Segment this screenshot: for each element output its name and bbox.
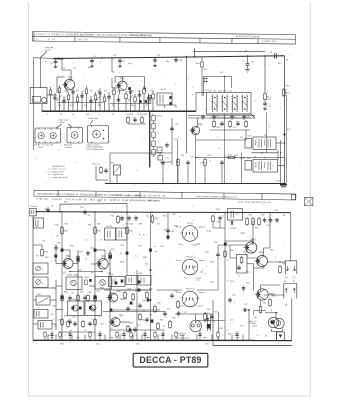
svg-text:C63: C63 [205, 344, 208, 346]
svg-text:Nom.val: Nom.val [92, 164, 99, 166]
underside view box driver [67, 127, 83, 143]
svg-text:TR2: TR2 [68, 76, 73, 79]
svg-text:0.5W: 0.5W [196, 244, 200, 246]
svg-text:Collector: Collector [197, 305, 204, 308]
svg-text:TR1 (x): TR1 (x) [187, 223, 193, 225]
svg-text:R34: R34 [45, 257, 48, 259]
svg-text:1k5: 1k5 [220, 72, 223, 74]
components under T7 [67, 320, 69, 322]
underside view transistor circle 2 [182, 259, 198, 275]
wire TR8 collector top [252, 241, 254, 245]
svg-text:point: point [196, 279, 200, 282]
svg-text:1k: 1k [222, 216, 224, 218]
svg-text:W: W [143, 235, 145, 237]
svg-text:L10 4k5: L10 4k5 [106, 226, 113, 228]
node bus junction 3 [154, 57, 155, 58]
capacitor C43 [276, 218, 278, 220]
component box left3 [38, 321, 52, 330]
svg-text:TR5: TR5 [101, 255, 106, 258]
wire TR4 TR5 emitter link [70, 271, 102, 273]
capacitor C18 on bus [175, 57, 177, 59]
component drop at x104.5 [104, 94, 106, 111]
ground at C14 [154, 64, 156, 66]
svg-text:AGC: AGC [196, 62, 201, 65]
svg-text:R12: R12 [268, 99, 271, 101]
electrolytic blobs lower section [61, 249, 64, 252]
capacitor C36 [135, 216, 137, 218]
electrolytic blobs in T7 [72, 307, 75, 310]
capacitor C1 [55, 59, 57, 61]
aerial note leader wire [40, 52, 47, 58]
svg-text:R58: R58 [157, 303, 160, 305]
capacitor C56 [229, 298, 231, 300]
IF transformer T6 box pair [66, 277, 82, 290]
resistor R37b on x78 [77, 255, 79, 257]
svg-text:C4: C4 [83, 91, 85, 93]
svg-text:R3: R3 [76, 91, 78, 93]
svg-text:TR4: TR4 [66, 255, 71, 258]
wire TR1 emitter down [66, 88, 68, 93]
component drop at x144 [143, 86, 145, 111]
svg-text:R35: R35 [163, 216, 166, 218]
svg-text:Black: Black [60, 122, 65, 124]
wire left rail lower [32, 216, 34, 340]
capacitor C30 input coupling [47, 207, 49, 209]
svg-text:R45a: R45a [210, 262, 214, 264]
capacitor C52 [164, 311, 166, 313]
component drop at x100 [99, 88, 101, 111]
resistor R36 on rail [61, 226, 63, 228]
svg-text:50: 50 [283, 215, 285, 217]
thermistor X1 box [277, 332, 285, 341]
wire TR3 top links [111, 58, 113, 72]
detector cluster components [127, 116, 129, 118]
svg-text:3: 3 [47, 114, 48, 116]
wire TR10 base chain [247, 263, 254, 265]
svg-text:8k2: 8k2 [98, 105, 101, 107]
svg-text:R8: R8 [151, 91, 153, 93]
components small bottom mid [204, 312, 206, 314]
svg-text:R13: R13 [278, 63, 281, 65]
junction dots on chassis bus [50, 110, 52, 112]
top parts-table row divider [32, 36, 295, 39]
wire bottom-left links [62, 331, 95, 333]
svg-text:9 9 SM / 5 W: 9 9 SM / 5 W [262, 41, 277, 43]
svg-text:OC81D: OC81D [230, 228, 237, 230]
pot arrows in row [57, 95, 134, 102]
resistor R42b left of T5 [212, 215, 214, 217]
svg-text:R11: R11 [204, 69, 207, 71]
svg-text:C14: C14 [157, 55, 160, 57]
svg-text:C37: C37 [160, 246, 163, 248]
svg-text:x2: x2 [70, 330, 72, 332]
svg-text:C21: C21 [268, 106, 271, 108]
middle table right end box [291, 194, 296, 199]
capacitor C38b [219, 216, 221, 218]
svg-text:R38: R38 [97, 224, 100, 226]
svg-text:VR2: VR2 [52, 306, 56, 308]
component drop at x82 [81, 91, 83, 111]
transistor TR6 [108, 293, 117, 302]
svg-text:D1: D1 [137, 114, 139, 116]
resistor R19h horizontal [227, 157, 229, 159]
svg-text:R33: R33 [111, 216, 114, 218]
svg-text:T4: T4 [254, 157, 256, 159]
svg-text:x1: x1 [42, 269, 44, 271]
svg-text:R62: R62 [181, 298, 184, 300]
svg-text:R20: R20 [247, 158, 250, 160]
wire TR1 collector up [70, 70, 72, 80]
svg-text:x: x [99, 114, 100, 116]
svg-text:⊔¹¹ c.depicked o W¹: ⊔¹¹ c.depicked o W¹ [48, 170, 65, 173]
svg-text:1: 1 [158, 125, 159, 127]
capacitor C32 on bus [84, 209, 86, 211]
svg-text:R55: R55 [214, 242, 217, 244]
svg-text:W 30 0.34 77 0.4 W 05: W 30 0.34 77 0.4 W 05 [236, 36, 260, 38]
svg-text:R53: R53 [128, 289, 131, 291]
wire gang top feeds [196, 92, 207, 94]
svg-text:0.04: 0.04 [70, 105, 74, 107]
svg-text:C57: C57 [230, 320, 233, 322]
svg-text:C33: C33 [97, 201, 100, 203]
resistor R65 [269, 298, 271, 300]
svg-text:△ ¹¹ n append q⁄c⁄ but⁄ql: △ ¹¹ n append q⁄c⁄ but⁄ql [48, 176, 68, 179]
svg-text:C44: C44 [57, 243, 60, 245]
resistor R44 [246, 217, 248, 219]
svg-text:C37: C37 [172, 214, 175, 216]
volume control VR1 [114, 165, 121, 175]
component drop at x139.5 [139, 90, 141, 111]
svg-text:C24: C24 [233, 127, 236, 129]
resistor R12 [264, 92, 266, 94]
svg-text:TR7: TR7 [119, 314, 124, 317]
output stage bias box [237, 255, 248, 274]
resistor R48 [61, 294, 63, 296]
svg-text:R68: R68 [228, 334, 231, 336]
component box mid2 [126, 276, 137, 285]
coil L2 circle [42, 98, 47, 103]
svg-text:R44x: R44x [174, 226, 178, 228]
node bus dots lower [61, 211, 62, 212]
svg-text:R36a: R36a [70, 246, 74, 248]
svg-text:2nd Hd · corr has LTS: 2nd Hd · corr has LTS [34, 145, 54, 147]
svg-text:R15: R15 [130, 114, 133, 116]
component drop at x91 [90, 96, 92, 111]
svg-text:25: 25 [56, 236, 58, 238]
svg-text:C39: C39 [138, 246, 141, 248]
wire volume to bus [116, 175, 118, 184]
bold chassis end mark [280, 184, 287, 186]
svg-text:+9v(x): +9v(x) [206, 231, 211, 233]
component drop at x64 [63, 96, 65, 111]
wire second bottom rail [212, 341, 214, 346]
component drop at x86.5 [86, 86, 88, 111]
underside view box 2nd IF [35, 128, 61, 143]
capacitor C5 on bus [91, 58, 93, 60]
svg-text:C50: C50 [174, 291, 177, 293]
wire bottom chassis bus [33, 339, 292, 341]
svg-text:R2: R2 [74, 68, 76, 70]
svg-text:TR6: TR6 [116, 290, 121, 293]
wire long verticals lower section [61, 212, 63, 340]
capacitor C34 [121, 216, 123, 218]
svg-text:C48: C48 [142, 301, 145, 303]
svg-text:C40x: C40x [205, 252, 209, 254]
wire output links [252, 152, 279, 154]
wire mid cluster vertical x137 [136, 270, 138, 340]
component chain right of T2 [152, 116, 155, 121]
svg-text:R61: R61 [166, 341, 169, 343]
svg-text:C52x: C52x [100, 324, 104, 326]
wires driver cluster [120, 289, 152, 291]
wire TR5 base feed [91, 263, 96, 265]
resistor bottoms on bus [47, 335, 49, 341]
wire HT bus thick elbow [54, 58, 64, 60]
wire links T6 T7 [56, 285, 62, 287]
svg-text:T6a: T6a [52, 288, 55, 290]
svg-text:R56: R56 [149, 289, 152, 291]
scan speckle noise [33, 48, 300, 343]
svg-text:R37: R37 [80, 252, 83, 254]
transistor TR9 [257, 256, 268, 267]
junction dots cluster [204, 78, 206, 80]
wire second connector feed [264, 294, 284, 296]
resistor R52 [94, 318, 96, 320]
svg-text:C20: C20 [246, 116, 249, 118]
svg-text:R40: R40 [130, 224, 133, 226]
bottom components row above bus [44, 331, 46, 340]
component drop at x114 [113, 87, 115, 111]
svg-text:R4: R4 [90, 91, 92, 93]
input socket J1 [30, 208, 36, 216]
wire speaker loop corner [254, 310, 267, 312]
svg-text:x3: x3 [85, 240, 87, 242]
svg-text:C34: C34 [125, 224, 128, 226]
resistor R39b [41, 248, 43, 250]
capacitor C26 [171, 126, 173, 128]
svg-text:0.5: 0.5 [72, 114, 75, 116]
wire AGC top link [195, 48, 266, 51]
svg-text:C44x: C44x [210, 282, 214, 284]
svg-text:C30: C30 [44, 209, 47, 211]
svg-text:C60: C60 [96, 344, 99, 346]
wire af takeoff [196, 157, 285, 159]
svg-text:C10 C11 C15 C16 CT2: C10 C11 C15 C16 CT2 [208, 90, 233, 92]
component drop at x135 [134, 94, 136, 111]
svg-text:R49: R49 [80, 292, 83, 294]
svg-text:6k8: 6k8 [86, 114, 89, 116]
svg-text:x4343: x4343 [84, 277, 89, 279]
svg-text:3: 3 [158, 142, 159, 144]
capacitor C58b [243, 309, 245, 311]
svg-text:coil back: coil back [65, 147, 73, 149]
svg-text:NOTAS/TBL ⁄c⁄: NOTAS/TBL ⁄c⁄ [53, 165, 66, 168]
component drop at x59.5 [59, 85, 61, 111]
transistor TR3 [118, 81, 128, 91]
svg-text:M4 W.W 18: M4 W.W 18 [148, 200, 161, 202]
title box DECCA-PT89 [133, 353, 208, 367]
svg-text:switch: switch [157, 115, 162, 118]
output transformer T4 box [253, 160, 278, 173]
svg-text:R43: R43 [230, 250, 233, 252]
svg-text:C56: C56 [232, 295, 235, 297]
wire TR9 up [263, 248, 265, 256]
resistor R20 beside T4 [245, 161, 252, 171]
capacitor C9 on bus [119, 58, 121, 60]
svg-text:1k: 1k [145, 105, 147, 107]
svg-text:C32: C32 [80, 207, 83, 209]
svg-text:R42: R42 [143, 257, 146, 259]
drawing number box right [304, 197, 313, 205]
preset VR2 box [36, 296, 50, 305]
svg-text:R63: R63 [270, 250, 273, 252]
wire TR4 TR5 couplers [73, 263, 78, 265]
IF transformer T7 box pair [68, 301, 85, 316]
electrolytic column right of circle4 [207, 315, 209, 331]
svg-text:C36: C36 [139, 224, 142, 226]
svg-text:R65: R65 [220, 328, 223, 330]
svg-text:8: 8 [136, 335, 137, 337]
2nd IF transformer T2 tall box [149, 112, 151, 168]
svg-text:R5: R5 [104, 91, 106, 93]
svg-text:R63: R63 [172, 318, 175, 320]
middle parts-table frame [34, 190, 296, 200]
wire TR2 base link [111, 78, 113, 88]
svg-text:JK1: JK1 [254, 317, 257, 319]
driver transformer T3 box [253, 137, 276, 150]
svg-text:R9: R9 [114, 55, 116, 57]
wire aerial drop [39, 58, 41, 89]
svg-text:C29·0.1: C29·0.1 [200, 163, 206, 165]
svg-text:Base: Base [184, 277, 188, 279]
components between T6 T7 [69, 296, 71, 298]
svg-text:47k: 47k [84, 105, 87, 107]
wire sub bus upper [60, 203, 127, 206]
component drop at x130.5 [130, 87, 132, 111]
svg-text:R1: R1 [58, 91, 60, 93]
svg-text:W1: W1 [60, 114, 63, 116]
capacitor C41 [270, 218, 272, 220]
svg-text:R52: R52 [97, 316, 100, 318]
svg-text:R41: R41 [108, 257, 111, 259]
components under detector [162, 161, 164, 163]
tone control box 2 [33, 277, 48, 288]
ground at C1 [55, 65, 57, 67]
svg-text:R31: R31 [64, 202, 67, 204]
wire rail x110 lower [109, 250, 111, 340]
svg-text:0.25: 0.25 [287, 129, 291, 131]
wire x177 drop [177, 140, 179, 184]
wire x241 drop to ground [241, 153, 243, 184]
svg-text:C47: C47 [184, 312, 187, 314]
capacitor C30 beside T3 [245, 139, 252, 149]
svg-text:R45: R45 [255, 228, 258, 230]
capacitor C14 on bus [154, 58, 156, 60]
capacitor C45 [87, 251, 89, 253]
svg-text:R66: R66 [282, 263, 285, 265]
svg-text:25p: 25p [200, 272, 203, 274]
component box mid3 [138, 276, 151, 286]
svg-text:0.1: 0.1 [51, 206, 54, 208]
svg-text:C54: C54 [250, 240, 253, 242]
capacitor C44 top left [55, 246, 57, 248]
svg-text:R46: R46 [261, 215, 264, 217]
wire long vertical x186 [186, 56, 188, 153]
svg-text:7x8.8k T6(84): 7x8.8k T6(84) [67, 275, 80, 277]
electrolytic blobs at L5 [169, 96, 171, 99]
on-off switch S1 on bus [271, 55, 275, 57]
tone control box 1 [33, 263, 48, 274]
transistor TR8 [246, 242, 257, 253]
svg-text:R44: R44 [249, 215, 252, 217]
wire T1 to TR1 base [47, 94, 57, 96]
svg-text:F KUWAH HamKit AJ MAN T: F KUWAH HamKit AJ MAN T [112, 194, 142, 197]
svg-text:C8: C8 [131, 91, 133, 93]
wire TR1 base link [57, 76, 65, 78]
svg-text:470: 470 [63, 273, 66, 275]
svg-text:R57: R57 [143, 311, 146, 313]
wire chassis bus upper [42, 110, 196, 112]
svg-text:C19: C19 [216, 116, 219, 118]
svg-text:47: 47 [85, 330, 87, 332]
ferrite rod aerial T1 box [30, 88, 47, 104]
svg-text:39p: 39p [166, 61, 169, 63]
node bus junction 2 [111, 57, 112, 58]
transistor TR7 [111, 317, 120, 326]
capacitor C35 [128, 216, 130, 218]
svg-text:R55: R55 [227, 245, 230, 247]
svg-text:x: x [267, 91, 268, 93]
battery connector bracket 2 [284, 284, 297, 299]
svg-text:0.5: 0.5 [227, 260, 230, 262]
svg-text:L5(L4): L5(L4) [160, 89, 166, 91]
svg-text:C46: C46 [88, 292, 91, 294]
svg-text:R50x: R50x [100, 288, 104, 290]
tuning gang sections [212, 95, 214, 113]
svg-text:R16: R16 [217, 127, 220, 129]
resistor R57b mid [224, 250, 226, 252]
svg-text:R14: R14 [286, 86, 289, 88]
resistors driver cluster [124, 291, 126, 293]
svg-text:R47: R47 [78, 270, 81, 272]
legend snippet circuit [95, 166, 97, 180]
resistor R14 on right rail [283, 88, 285, 90]
svg-text:Poles: Poles [38, 147, 43, 149]
svg-text:TR2,3,4 (x): TR2,3,4 (x) [186, 257, 195, 259]
wire bias box to TR9 base [247, 257, 257, 259]
components between T6 boxes [85, 280, 88, 285]
resistor R33 [117, 215, 119, 217]
svg-text:R19: R19 [208, 155, 211, 157]
resistor R59 [169, 320, 171, 322]
loudspeaker connector bracket 1 [285, 261, 297, 274]
oscillator coil L5 box [157, 93, 172, 105]
wire right HT rail [284, 56, 286, 184]
driver stage T8 box [109, 277, 126, 287]
svg-text:1k: 1k [100, 240, 102, 242]
small parts column left of TR3 [157, 147, 162, 153]
svg-text:C58: C58 [214, 312, 217, 314]
svg-text:0.1: 0.1 [120, 253, 123, 255]
resistor R46 [258, 217, 260, 219]
wire TR5 collector [104, 250, 106, 259]
svg-text:R64: R64 [263, 303, 266, 305]
svg-text:C6: C6 [97, 91, 99, 93]
svg-text:25k: 25k [51, 314, 54, 316]
svg-text:R40a: R40a [120, 262, 124, 264]
resistor R62 [279, 265, 281, 267]
svg-text:C10: C10 [205, 90, 208, 92]
